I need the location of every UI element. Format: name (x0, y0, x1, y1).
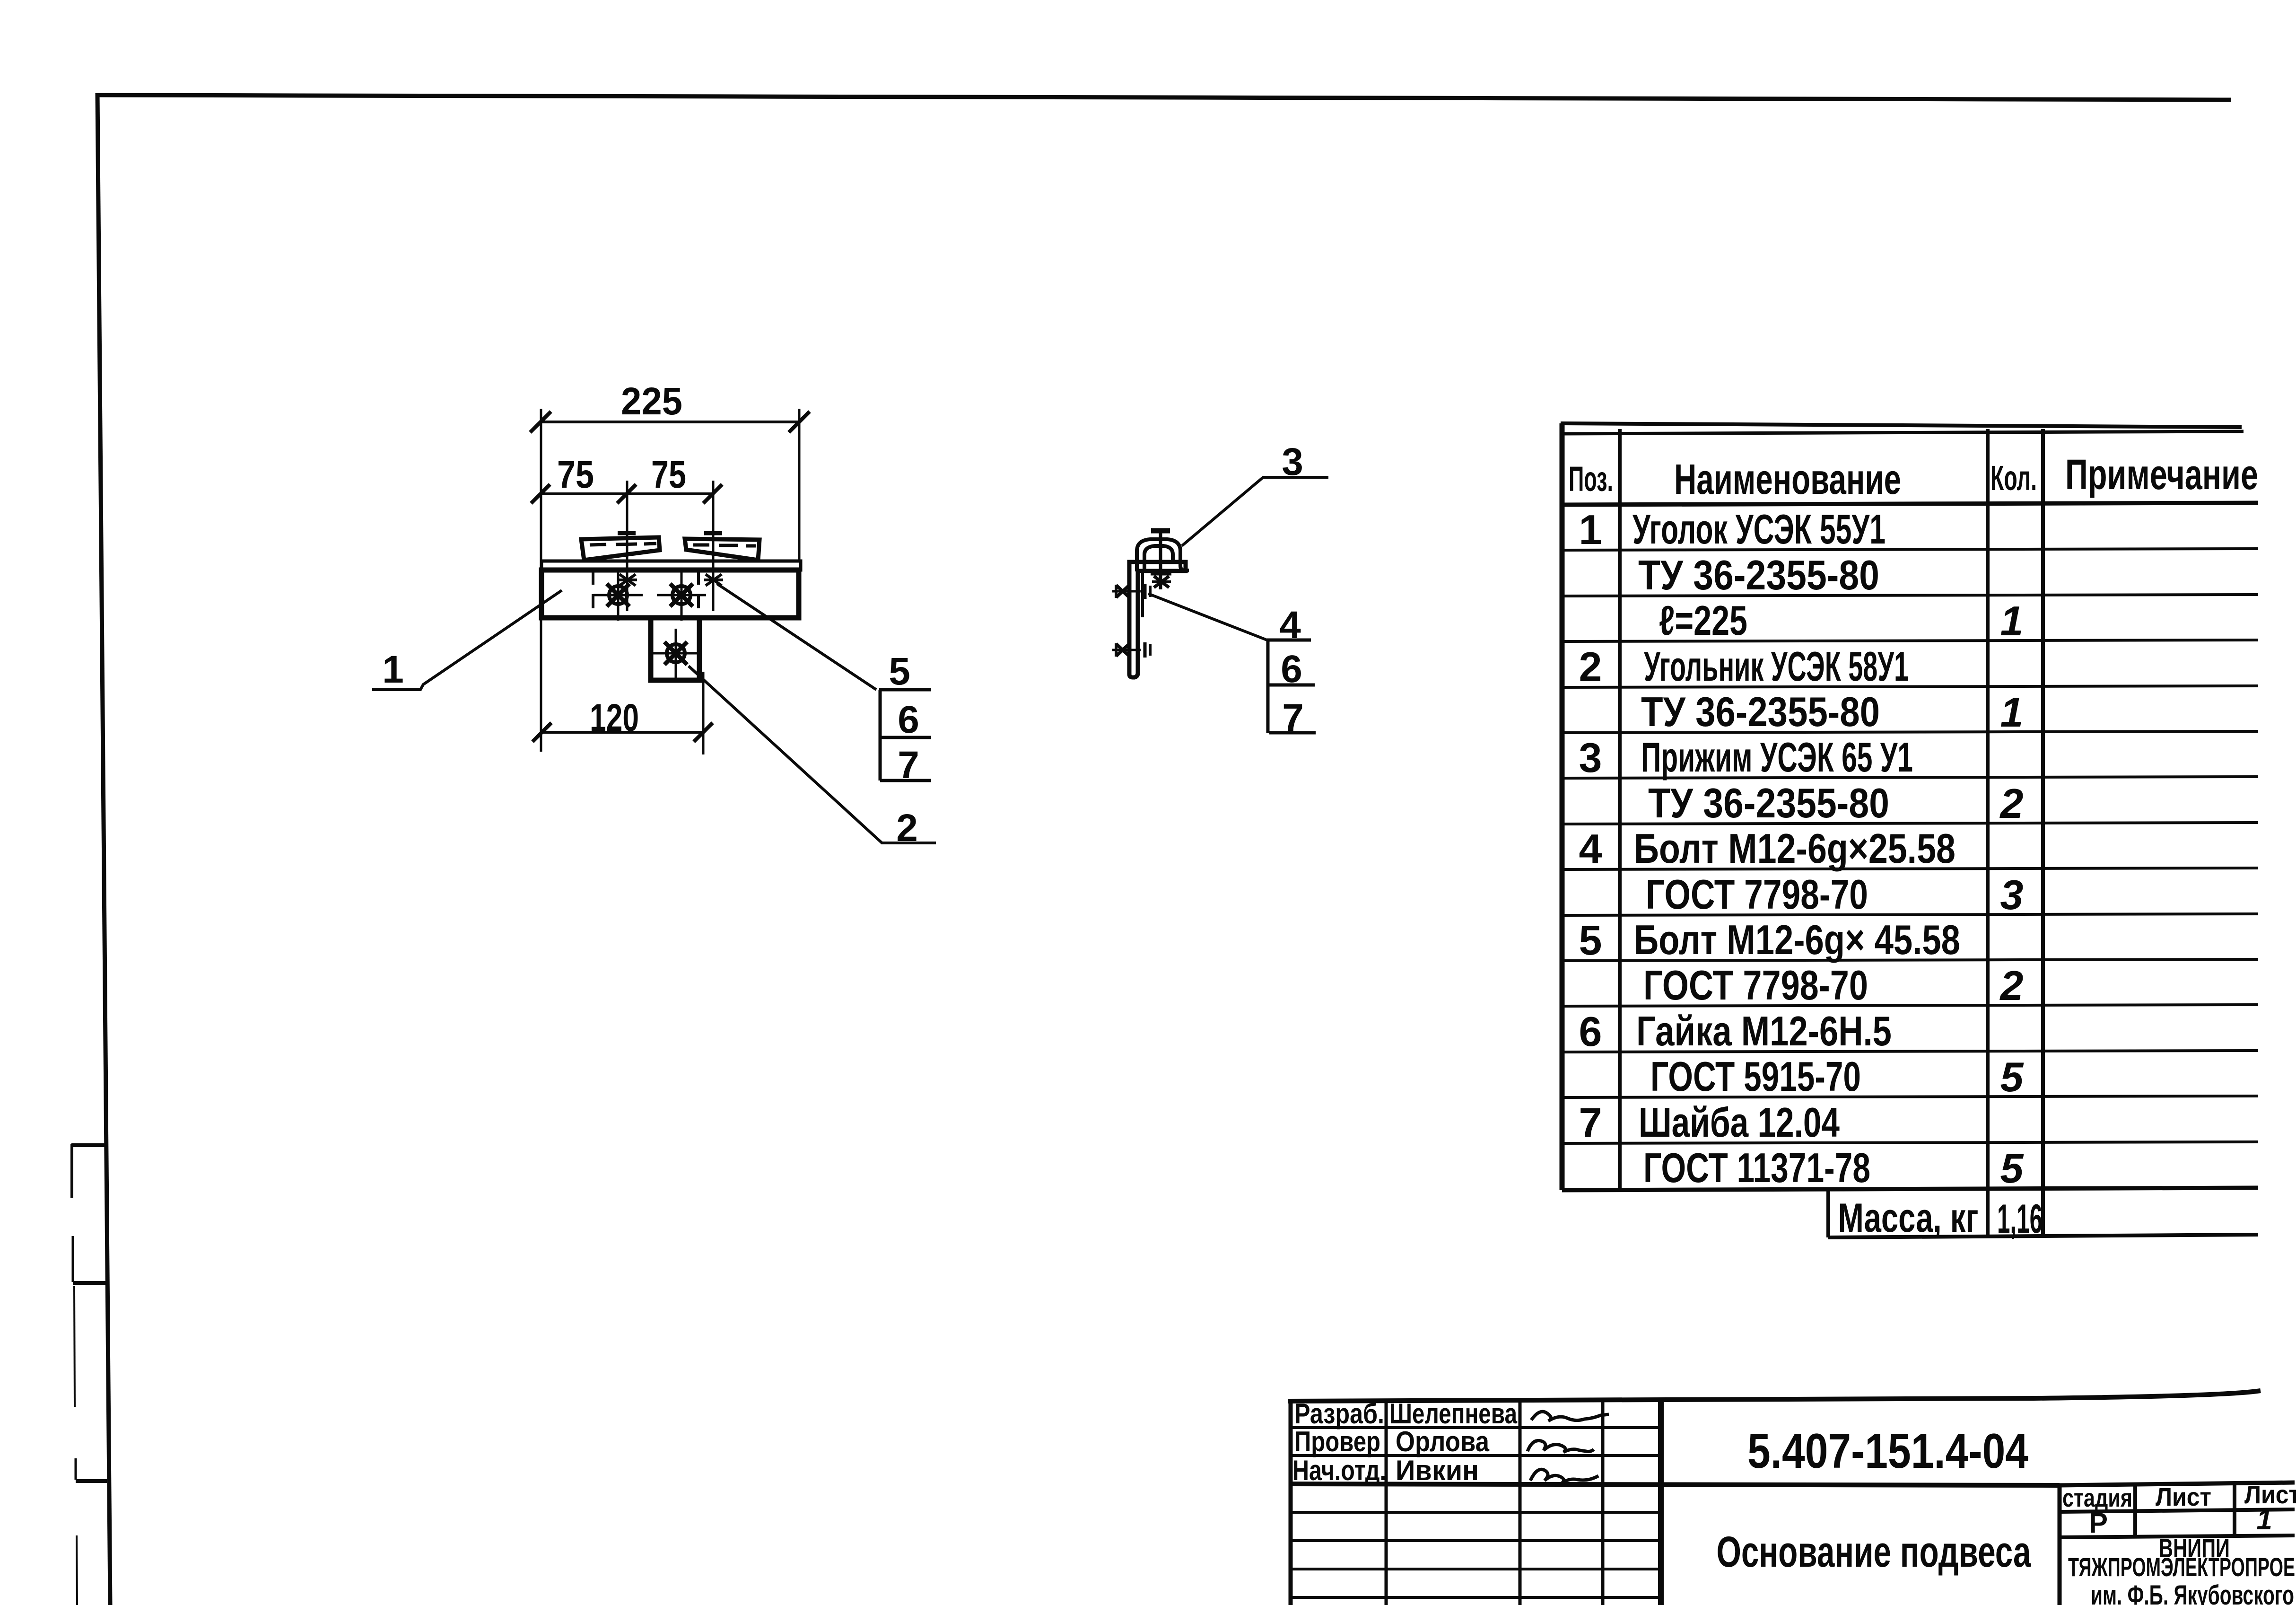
svg-text:2: 2 (1999, 780, 2024, 827)
svg-text:75: 75 (651, 453, 686, 496)
svg-text:3: 3 (1282, 440, 1303, 483)
svg-text:Основание подвеса: Основание подвеса (1717, 1528, 2032, 1576)
svg-text:4: 4 (1579, 825, 1602, 872)
svg-text:1: 1 (1579, 506, 1602, 553)
svg-text:1: 1 (382, 648, 404, 691)
svg-text:Уголок УСЭК 55У1: Уголок УСЭК 55У1 (1633, 506, 1886, 553)
svg-text:ТУ 36-2355-80: ТУ 36-2355-80 (1641, 688, 1880, 735)
svg-text:Болт М12-6g× 45.58: Болт М12-6g× 45.58 (1634, 916, 1960, 963)
svg-text:5: 5 (2000, 1145, 2024, 1192)
svg-text:5: 5 (889, 650, 910, 693)
svg-text:ГОСТ 11371-78: ГОСТ 11371-78 (1643, 1144, 1870, 1191)
svg-text:Угольник УСЭК 58У1: Угольник УСЭК 58У1 (1644, 643, 1909, 690)
svg-text:3: 3 (2000, 871, 2024, 918)
svg-text:Лист: Лист (2156, 1483, 2211, 1511)
svg-text:Нач.отд.: Нач.отд. (1292, 1455, 1386, 1486)
svg-text:5.407-151.4-04: 5.407-151.4-04 (1747, 1424, 2028, 1479)
svg-text:6: 6 (1281, 648, 1302, 691)
svg-text:7: 7 (1579, 1099, 1602, 1146)
svg-text:ℓ=225: ℓ=225 (1659, 597, 1747, 644)
svg-text:Разраб.: Разраб. (1294, 1398, 1384, 1430)
svg-text:7: 7 (1282, 696, 1304, 739)
svg-text:3: 3 (1579, 734, 1602, 781)
svg-text:Поз.: Поз. (1569, 459, 1613, 499)
svg-text:7: 7 (898, 744, 919, 787)
svg-text:1: 1 (2000, 597, 2024, 644)
svg-text:1,16: 1,16 (1997, 1196, 2043, 1242)
svg-text:Провер: Провер (1294, 1426, 1380, 1457)
svg-text:Кол.: Кол. (1990, 458, 2037, 498)
svg-text:Болт М12-6g×25.58: Болт М12-6g×25.58 (1634, 825, 1956, 872)
svg-text:4: 4 (1279, 604, 1301, 647)
svg-text:75: 75 (557, 453, 594, 496)
svg-text:6: 6 (898, 698, 919, 741)
svg-text:2: 2 (1579, 643, 1602, 690)
svg-text:2: 2 (1999, 962, 2024, 1009)
svg-text:им. Ф.Б. Якубовского: им. Ф.Б. Якубовского (2091, 1580, 2294, 1605)
svg-text:Масса, кг: Масса, кг (1838, 1195, 1979, 1241)
svg-text:Примечание: Примечание (2065, 451, 2258, 499)
svg-text:ТЯЖПРОМЭЛЕКТРОПРОЕ: ТЯЖПРОМЭЛЕКТРОПРОЕ (2068, 1552, 2295, 1582)
svg-text:225: 225 (621, 380, 682, 423)
svg-text:ТУ 36-2355-80: ТУ 36-2355-80 (1638, 552, 1879, 598)
svg-text:1: 1 (2256, 1504, 2272, 1535)
svg-text:2: 2 (896, 807, 918, 850)
svg-text:Р: Р (2089, 1507, 2108, 1539)
svg-text:Гайка М12-6Н.5: Гайка М12-6Н.5 (1636, 1008, 1892, 1054)
svg-text:ГОСТ 5915-70: ГОСТ 5915-70 (1650, 1053, 1861, 1100)
svg-text:1: 1 (2000, 689, 2024, 736)
svg-text:Ивкин: Ивкин (1396, 1455, 1479, 1486)
svg-text:5: 5 (1579, 917, 1602, 964)
svg-text:120: 120 (590, 696, 639, 739)
svg-text:6: 6 (1579, 1008, 1602, 1055)
svg-text:5: 5 (2000, 1053, 2024, 1100)
svg-text:ГОСТ 7798-70: ГОСТ 7798-70 (1643, 962, 1868, 1009)
svg-text:ГОСТ 7798-70: ГОСТ 7798-70 (1646, 871, 1868, 918)
svg-text:ТУ 36-2355-80: ТУ 36-2355-80 (1648, 780, 1889, 826)
svg-text:Наименование: Наименование (1674, 456, 1901, 503)
svg-text:Шайба 12.04: Шайба 12.04 (1639, 1099, 1840, 1146)
svg-text:Орлова: Орлова (1396, 1426, 1490, 1457)
svg-text:Прижим УСЭК 65 У1: Прижим УСЭК 65 У1 (1641, 734, 1913, 781)
svg-text:Шелепнева: Шелепнева (1389, 1398, 1517, 1430)
